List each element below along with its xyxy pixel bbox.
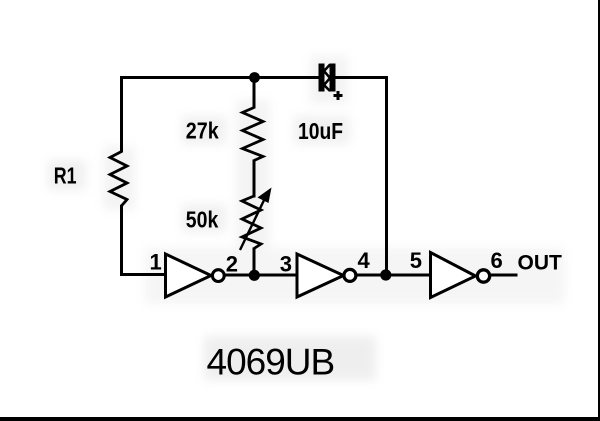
wire left vertical lower (120, 205, 123, 276)
resistor 27k (243, 108, 264, 161)
svg-text:OUT: OUT (518, 252, 563, 275)
node junction dot middle (249, 270, 260, 281)
wire right vertical (385, 76, 388, 275)
wire output (490, 274, 518, 277)
svg-text:4069UB: 4069UB (207, 342, 335, 383)
resistor R1 (110, 152, 127, 206)
svg-text:10uF: 10uF (298, 118, 343, 144)
inverter U1C output bubble (477, 270, 489, 282)
border right edge (598, 0, 600, 421)
wire top horizontal right segment (335, 76, 388, 79)
potentiometer arrow (240, 188, 272, 251)
wire top horizontal left segment (120, 76, 319, 79)
wire middle vertical upper (253, 76, 256, 109)
svg-text:5: 5 (410, 248, 422, 273)
svg-text:3: 3 (280, 252, 292, 277)
inverter U1A (166, 254, 212, 297)
capacitor C1 right plate (330, 64, 336, 92)
potentiometer 50k zigzag (242, 196, 261, 249)
border bottom edge (0, 417, 600, 421)
capacitor C1 hatching (324, 65, 330, 92)
capacitor C1 left plate (319, 64, 325, 92)
svg-text:R1: R1 (54, 163, 77, 189)
svg-text:4: 4 (358, 248, 371, 273)
wire between inverter 2 and 3 (356, 274, 431, 277)
wire middle vertical between resistor and pot (253, 160, 256, 198)
node junction dot right (380, 269, 391, 280)
svg-text:6: 6 (491, 248, 503, 273)
inverter U1B output bubble (344, 269, 356, 281)
svg-text:27k: 27k (186, 118, 219, 144)
wire left vertical upper (120, 76, 123, 153)
wire bottom-left horizontal (120, 273, 165, 276)
node junction dot top (249, 72, 260, 83)
svg-text:50k: 50k (186, 207, 219, 233)
inverter U1C (431, 253, 476, 298)
inverter U1A output bubble (212, 270, 224, 282)
capacitor plus sign (334, 91, 343, 100)
wire middle vertical lower (253, 248, 256, 277)
svg-text:2: 2 (226, 252, 238, 277)
wire between inverter 1 and 2 (224, 274, 298, 277)
inverter U1B (297, 254, 344, 297)
svg-text:1: 1 (150, 250, 162, 275)
